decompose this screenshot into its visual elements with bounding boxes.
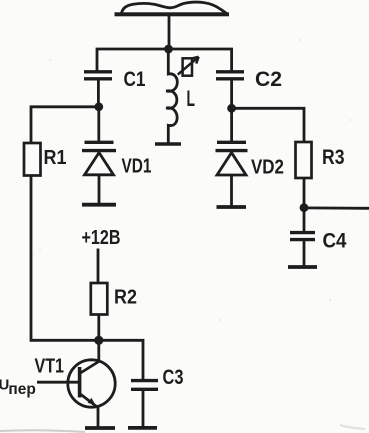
ground (C4) <box>288 265 317 269</box>
node: C1 / VD1 / R1 junction <box>94 102 103 111</box>
node: R3 / C4 / output junction <box>300 203 309 212</box>
wire: node to C3 <box>99 340 143 380</box>
inductor L <box>166 50 177 144</box>
wire: C1 to VD1/R1 node <box>97 79 100 107</box>
capacitor C2 <box>216 72 244 79</box>
node: R2 / collector / C3 junction <box>94 336 103 345</box>
ground (L) <box>155 142 181 146</box>
node: C2 / VD2 / R3 junction <box>227 104 236 113</box>
transistor VT1 <box>68 360 115 408</box>
node: antenna / tank junction <box>164 45 173 54</box>
svg-text:VD1: VD1 <box>122 155 152 178</box>
svg-text:+12В: +12В <box>82 226 121 249</box>
resistor R1 <box>24 143 41 176</box>
wire: collector from node <box>97 340 100 361</box>
wire: node to R3 <box>232 108 304 142</box>
svg-text:C3: C3 <box>163 366 184 389</box>
svg-text:L: L <box>187 86 196 111</box>
ground (VT1 emitter) <box>85 426 115 430</box>
wire: base input <box>37 381 78 384</box>
varicap VD2 <box>216 142 248 207</box>
wire: node to R1 <box>31 107 99 143</box>
svg-text:C1: C1 <box>124 67 146 91</box>
wire: node to VD2 <box>230 108 233 142</box>
resistor R3 <box>296 142 312 178</box>
wire: output to right edge <box>304 206 369 209</box>
wire: emitter to ground <box>97 407 100 428</box>
wire: C2 to VD2/R3 node <box>230 79 233 108</box>
capacitor C1 <box>84 72 112 79</box>
svg-text:R1: R1 <box>44 146 67 169</box>
ground (VD2) <box>217 205 247 209</box>
wire: node to C4 <box>303 208 306 232</box>
wire: top bus with drops to C1 and C2 <box>97 49 232 71</box>
resistor R2 <box>91 283 108 315</box>
svg-text:VD2: VD2 <box>251 156 284 179</box>
capacitor C4 <box>290 233 315 240</box>
wire: R2 to collector node <box>97 315 100 341</box>
svg-text:R2: R2 <box>114 286 137 309</box>
capacitor C3 <box>131 381 158 390</box>
wire: R3 to C4 node <box>303 178 306 208</box>
wire: C3 to ground <box>142 390 145 428</box>
trimmer core arrow on L <box>178 57 199 76</box>
ground (VD1) <box>82 203 116 207</box>
wire: antenna stem <box>168 16 171 51</box>
svg-text:VT1: VT1 <box>35 356 65 378</box>
antenna W1 plate <box>115 2 230 16</box>
svg-text:C2: C2 <box>255 67 282 91</box>
svg-text:Uпер: Uпер <box>0 377 36 399</box>
ground (C3) <box>128 426 157 430</box>
svg-text:C4: C4 <box>323 229 347 253</box>
wire: C4 to ground <box>303 240 306 267</box>
wire: +12V feed to R2 <box>97 249 100 284</box>
wire: node to VD1 <box>97 107 100 142</box>
wire: R1 down the left rail to base node <box>31 176 99 341</box>
varicap VD1 <box>82 142 116 204</box>
svg-text:R3: R3 <box>322 146 345 169</box>
